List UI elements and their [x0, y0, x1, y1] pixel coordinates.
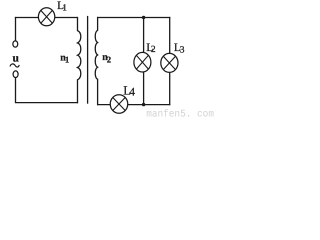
wire: left vertical lower segment: [15, 77, 17, 102]
lamp L1: [38, 8, 54, 26]
node: junction dot top (L2 branch / top wire): [142, 16, 145, 19]
terminal lower (AC source): [13, 71, 18, 78]
node: junction dot bottom (L2 branch / bottom wire): [142, 103, 145, 106]
label L1: [57, 0, 67, 13]
svg-text:1: 1: [65, 55, 69, 65]
coil n1 (primary winding, 4 loops bulging right): [78, 17, 81, 103]
svg-text:4: 4: [129, 85, 135, 98]
lamp L3: [161, 53, 178, 72]
wire: primary top (left corner to coil n1 top): [15, 17, 78, 19]
svg-text:3: 3: [180, 45, 185, 55]
svg-text:2: 2: [107, 55, 112, 65]
lamp L4: [110, 95, 128, 114]
label n1: [60, 52, 69, 64]
label L3: [174, 42, 185, 55]
label L4: [123, 84, 135, 99]
label n2: [102, 52, 112, 65]
wire: left vertical upper segment: [15, 17, 17, 41]
label L2: [146, 42, 156, 55]
svg-text:u: u: [13, 53, 20, 65]
svg-text:manfen5. com: manfen5. com: [146, 109, 214, 119]
terminal upper (AC source): [13, 41, 18, 47]
transformer core: [87, 16, 89, 104]
AC tilde symbol: [10, 64, 19, 67]
svg-text:2: 2: [151, 45, 156, 55]
coil n2 (secondary winding, 4 loops bulging left): [95, 17, 97, 105]
svg-text:1: 1: [62, 3, 67, 13]
wire: secondary bottom: [97, 104, 170, 106]
wire: branch of L3: [169, 17, 171, 105]
wire: branch of L2: [143, 18, 145, 105]
wire: primary bottom: [15, 102, 78, 104]
wire: secondary top: [97, 17, 170, 19]
lamp L2: [134, 52, 151, 72]
